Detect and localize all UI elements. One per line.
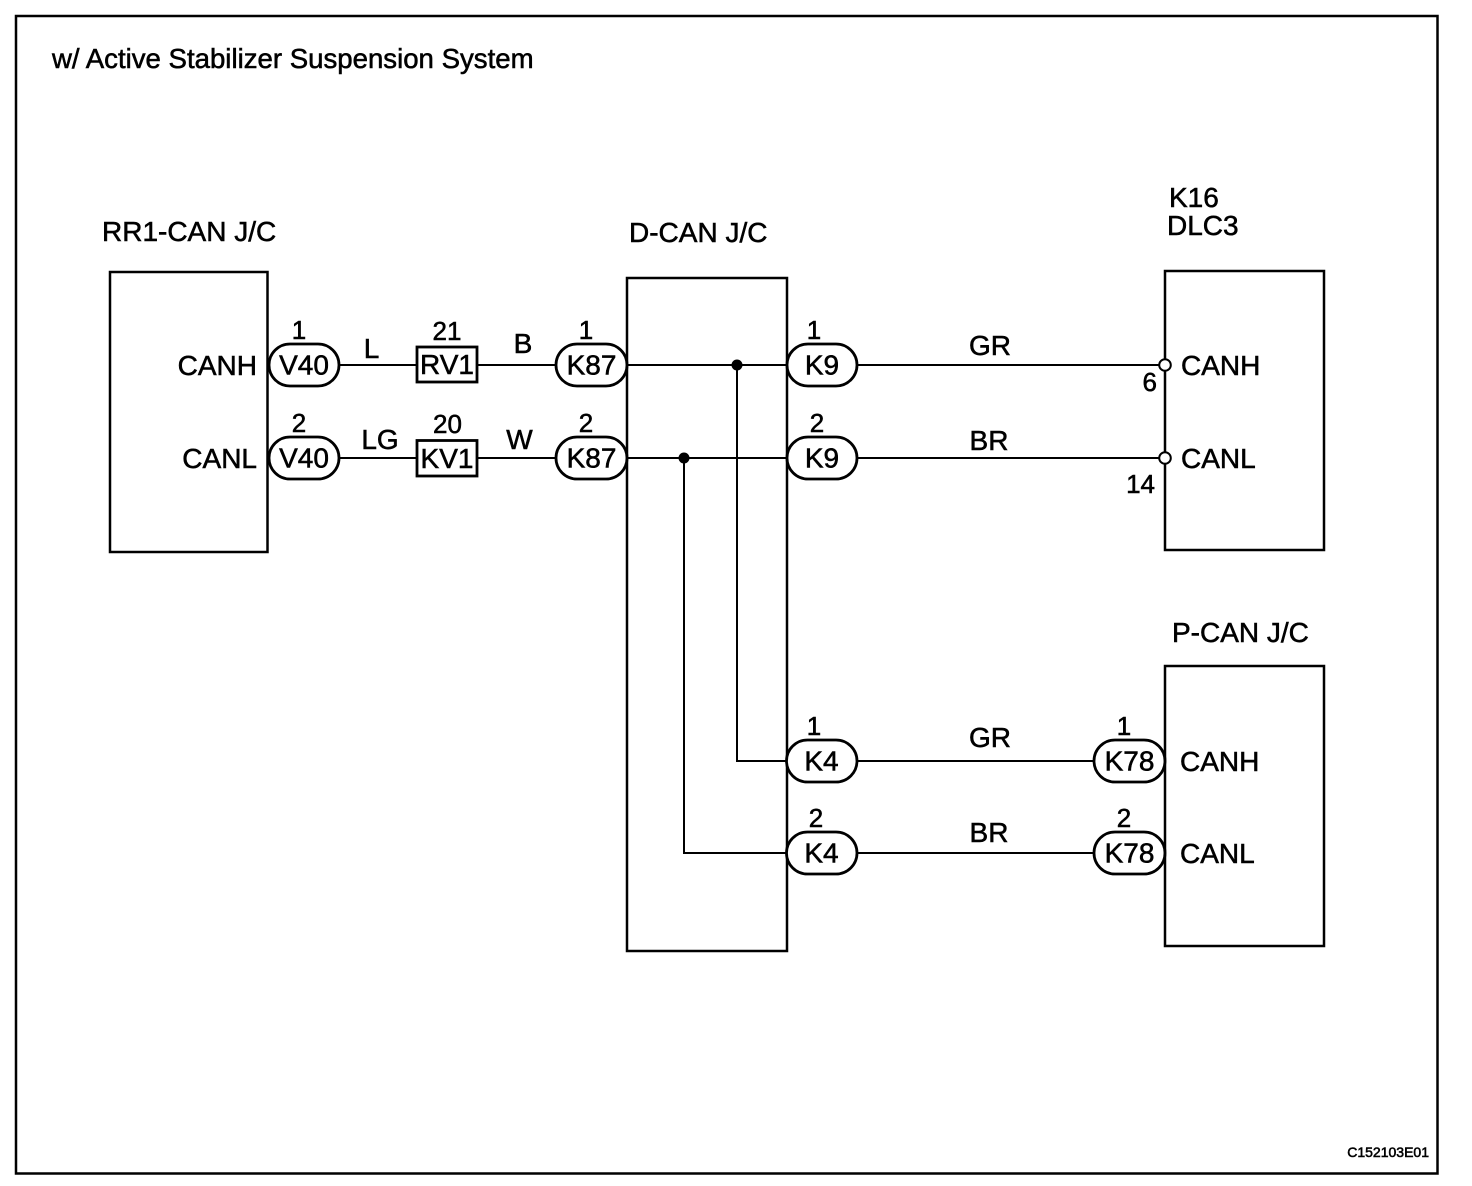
svg-text:21: 21 xyxy=(433,316,462,346)
wire BR (K9-2 to DLC3 pin 14) xyxy=(857,457,1161,459)
junction dot on CANH xyxy=(732,360,743,371)
svg-text:1: 1 xyxy=(579,315,593,345)
connector K87 pin 1 xyxy=(556,315,627,386)
junction block RR1-CAN J/C xyxy=(102,216,276,552)
connector K87 pin 2 xyxy=(556,408,627,479)
connector V40 pin 2 xyxy=(269,408,339,479)
svg-text:K4: K4 xyxy=(804,838,838,869)
svg-text:KV1: KV1 xyxy=(421,443,474,474)
svg-text:2: 2 xyxy=(579,408,593,438)
connector K4 pin 2 xyxy=(787,803,858,874)
svg-text:K9: K9 xyxy=(805,350,839,381)
svg-text:2: 2 xyxy=(809,803,823,833)
svg-text:C152103E01: C152103E01 xyxy=(1347,1144,1429,1160)
svg-text:CANH: CANH xyxy=(178,350,257,381)
svg-text:CANL: CANL xyxy=(1180,838,1255,869)
svg-text:K87: K87 xyxy=(567,350,617,381)
junction block D-CAN J/C xyxy=(627,217,787,951)
svg-text:RV1: RV1 xyxy=(420,349,474,380)
svg-text:BR: BR xyxy=(970,425,1009,456)
wire W (KV1 to K87) xyxy=(477,457,556,459)
wire BR (K4-2 to K78-2) xyxy=(857,852,1094,854)
connector K16 DLC3 xyxy=(1165,182,1324,550)
connector K78 pin 1 xyxy=(1094,711,1165,782)
svg-text:K78: K78 xyxy=(1105,838,1155,869)
svg-text:CANH: CANH xyxy=(1180,746,1259,777)
svg-text:GR: GR xyxy=(969,330,1011,361)
connector K9 pin 1 xyxy=(787,315,857,386)
junction block P-CAN J/C xyxy=(1165,617,1324,946)
DLC3 pin 14 terminal xyxy=(1126,452,1171,499)
svg-text:K16: K16 xyxy=(1169,182,1219,213)
svg-text:K9: K9 xyxy=(805,443,839,474)
wire L (V40 to RV1) xyxy=(339,364,417,366)
svg-text:1: 1 xyxy=(292,315,306,345)
branch wire to K4-1 xyxy=(737,365,787,761)
svg-text:14: 14 xyxy=(1126,469,1155,499)
wire B (RV1 to K87) xyxy=(477,364,556,366)
svg-text:2: 2 xyxy=(1117,803,1131,833)
noise filter KV1 pin 20 xyxy=(417,409,477,476)
svg-text:CANL: CANL xyxy=(182,443,257,474)
wire GR (K9-1 to DLC3 pin 6) xyxy=(857,364,1161,366)
svg-text:B: B xyxy=(514,328,533,359)
svg-text:K87: K87 xyxy=(567,443,617,474)
svg-text:BR: BR xyxy=(970,817,1009,848)
wire CANH through D-CAN J/C (K87-1 to K9-1) xyxy=(627,364,787,366)
svg-text:DLC3: DLC3 xyxy=(1167,210,1239,241)
svg-text:K78: K78 xyxy=(1105,746,1155,777)
svg-text:W: W xyxy=(506,424,533,455)
svg-text:P-CAN J/C: P-CAN J/C xyxy=(1172,617,1309,648)
svg-text:2: 2 xyxy=(810,408,824,438)
svg-text:CANH: CANH xyxy=(1181,350,1260,381)
svg-text:CANL: CANL xyxy=(1181,443,1256,474)
connector K4 pin 1 xyxy=(787,711,858,782)
svg-text:w/ Active Stabilizer Suspensio: w/ Active Stabilizer Suspension System xyxy=(51,43,534,74)
svg-text:K4: K4 xyxy=(804,746,838,777)
noise filter RV1 pin 21 xyxy=(417,316,477,382)
wire LG (V40 to KV1) xyxy=(339,457,417,459)
svg-text:6: 6 xyxy=(1143,367,1157,397)
svg-text:V40: V40 xyxy=(279,350,329,381)
svg-text:GR: GR xyxy=(969,722,1011,753)
DLC3 pin 6 terminal xyxy=(1143,359,1171,397)
svg-text:L: L xyxy=(364,333,380,364)
svg-text:2: 2 xyxy=(292,408,306,438)
wire CANL through D-CAN J/C (K87-2 to K9-2) xyxy=(627,457,787,459)
svg-text:1: 1 xyxy=(807,711,821,741)
connector K9 pin 2 xyxy=(787,408,857,479)
svg-text:RR1-CAN J/C: RR1-CAN J/C xyxy=(102,216,276,247)
branch wire to K4-2 xyxy=(684,458,787,853)
wire GR (K4-1 to K78-1) xyxy=(857,760,1094,762)
svg-text:20: 20 xyxy=(433,409,462,439)
svg-text:LG: LG xyxy=(361,424,398,455)
svg-text:D-CAN J/C: D-CAN J/C xyxy=(629,217,767,248)
connector K78 pin 2 xyxy=(1094,803,1165,874)
svg-text:1: 1 xyxy=(807,315,821,345)
junction dot on CANL xyxy=(679,453,690,464)
connector V40 pin 1 xyxy=(269,315,339,386)
svg-text:1: 1 xyxy=(1117,711,1131,741)
svg-text:V40: V40 xyxy=(279,443,329,474)
